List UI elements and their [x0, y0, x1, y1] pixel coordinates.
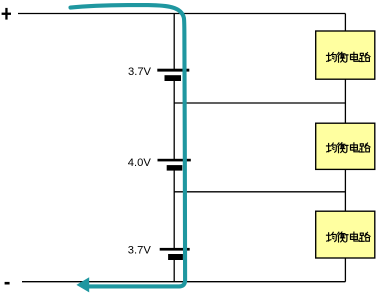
wire bottom negative rail: [22, 281, 345, 283]
wire tap 2: [174, 191, 345, 193]
wire balance box3 bottom to bottom rail: [344, 258, 346, 282]
battery cell B3 plates: [160, 248, 190, 260]
svg-text:3.7V: 3.7V: [128, 66, 152, 78]
battery cell B1 plates: [157, 69, 189, 81]
balancing current flow curve (teal): [71, 5, 186, 286]
balance circuit box 2 label 均衡电路: [327, 143, 371, 153]
svg-text:3.7V: 3.7V: [128, 245, 152, 257]
minus terminal label: [5, 282, 10, 285]
battery cell B2 plates: [158, 159, 191, 171]
balance circuit box 1: [316, 31, 375, 79]
wire battery string segment 4: [173, 260, 175, 282]
balance circuit box 1 label 均衡电路: [327, 52, 371, 62]
wire balance box2 bottom to tap2 to box3 top: [344, 169, 346, 211]
svg-text:4.0V: 4.0V: [128, 157, 152, 169]
plus terminal label: [2, 8, 11, 20]
balance circuit box 2: [316, 123, 375, 169]
balance circuit box 3: [316, 211, 375, 258]
flow arrow head: [76, 277, 89, 292]
balance circuit box 3 label 均衡电路: [327, 232, 371, 242]
wire balance box1 bottom to tap1 to box2 top: [344, 79, 346, 123]
wire battery string segment 2: [173, 81, 175, 160]
wire battery string segment 3: [173, 170, 175, 249]
wire right drop to balance box 1: [344, 14, 346, 32]
wire battery string segment 1: [173, 14, 175, 70]
wire tap 1: [174, 102, 345, 104]
wire top positive rail: [18, 13, 345, 15]
